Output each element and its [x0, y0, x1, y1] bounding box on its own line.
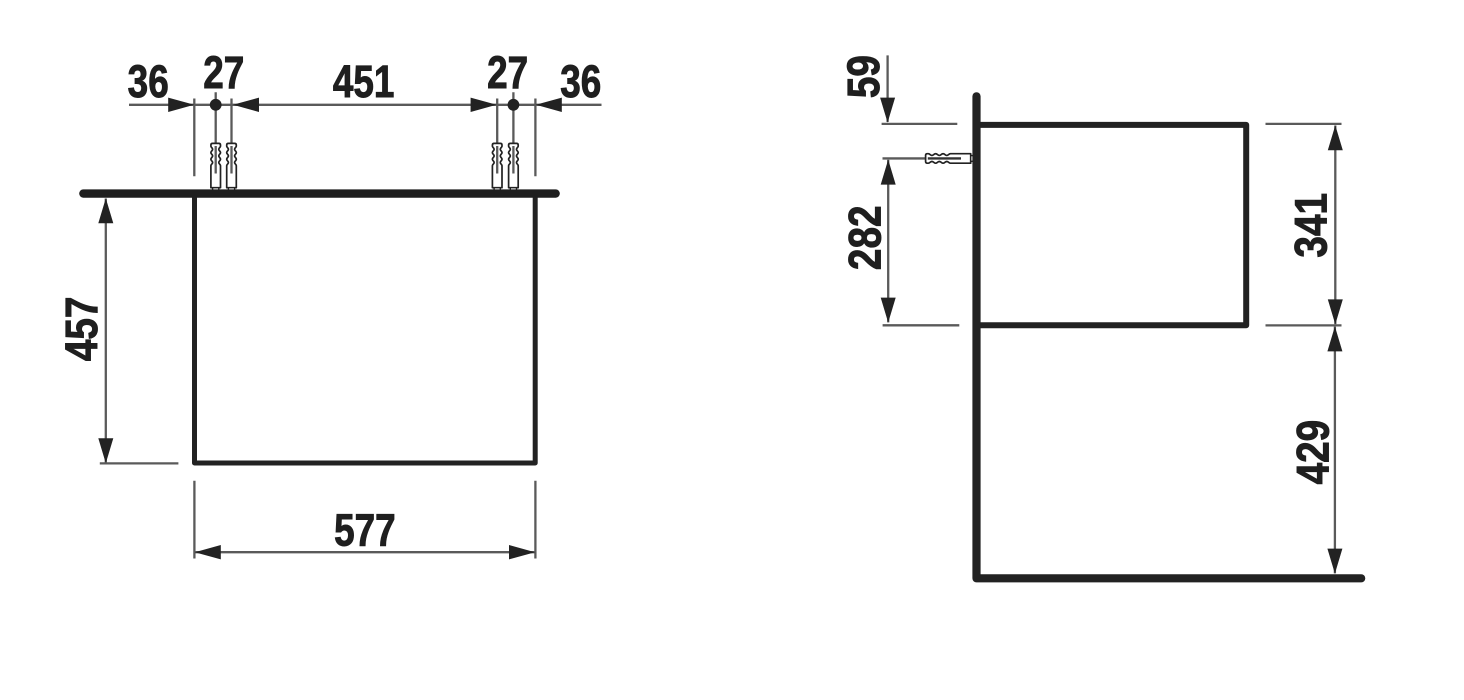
svg-text:59: 59: [838, 55, 888, 98]
extension line cabinet left edge: [193, 99, 195, 177]
wall anchor (side view): [926, 154, 971, 164]
axis line dowel 2: [230, 99, 232, 174]
wall and floor: [977, 96, 1362, 578]
arrowhead dim 36 right, pointing left: [536, 98, 562, 112]
arrowhead dim 282 bottom, pointing down: [881, 298, 896, 323]
svg-text:457: 457: [56, 297, 106, 362]
cabinet body outline: [195, 197, 536, 463]
axis line dowel 1: [215, 92, 217, 173]
arrowhead dim 457 bottom, pointing down: [98, 438, 113, 463]
svg-text:577: 577: [334, 505, 396, 555]
dot marker dim 27 right: [508, 99, 520, 111]
arrowhead dim 282 top, pointing up: [881, 160, 896, 185]
extension line cabinet right edge: [534, 99, 536, 177]
dim 59 vertical line: [886, 55, 888, 122]
axis line dowel 4: [512, 92, 514, 173]
arrowhead dim 457 top, pointing up: [98, 198, 113, 223]
svg-text:341: 341: [1286, 193, 1336, 258]
svg-text:282: 282: [840, 206, 890, 271]
arrowhead dim 577 left, pointing left: [195, 545, 221, 559]
svg-text:27: 27: [203, 48, 244, 98]
extension line 577 right: [534, 481, 536, 559]
dim 429 vertical line: [1334, 327, 1336, 574]
extension line box top right: [1266, 123, 1342, 125]
dim 577 line: [195, 551, 536, 553]
wall plug dowel d4: [509, 143, 519, 187]
svg-text:429: 429: [1288, 420, 1338, 485]
arrowhead dim 36 left, pointing right: [168, 98, 194, 112]
screw axis inside dowel 3: [496, 146, 498, 174]
arrowhead dim 451 left, pointing left: [233, 98, 259, 112]
screw inside wall anchor: [928, 157, 961, 159]
axis line dowel 3: [496, 99, 498, 174]
extension line 577 left: [193, 481, 195, 559]
wall plug dowel d1: [211, 143, 221, 187]
extension line cabinet top (side view): [882, 123, 958, 125]
wall plug dowel d3: [492, 143, 502, 187]
arrowhead dim 341 top, pointing up: [1328, 125, 1343, 150]
top dimension chain line (36/27/451/27/36): [129, 104, 602, 106]
dot marker dim 27 left: [210, 99, 222, 111]
dim 457 vertical line: [105, 199, 107, 464]
leader line to wall anchor: [883, 157, 926, 159]
svg-text:36: 36: [128, 57, 169, 107]
arrowhead dim 429 top, pointing up: [1327, 326, 1342, 351]
screw axis inside dowel 2: [230, 146, 232, 174]
cabinet box (side view): [980, 125, 1246, 325]
arrowhead dim 429 bottom, pointing down: [1327, 549, 1342, 574]
wall plug dowel d2: [227, 143, 237, 187]
arrowhead dim 577 right, pointing right: [509, 545, 535, 559]
dim 341 vertical line: [1334, 126, 1336, 325]
svg-text:451: 451: [333, 57, 395, 107]
screw axis inside dowel 1: [215, 146, 217, 174]
svg-text:27: 27: [487, 48, 528, 98]
arrowhead dim 341 bottom, pointing down: [1328, 299, 1343, 324]
extension line cabinet bottom left: [100, 462, 179, 464]
dim 282 vertical line: [887, 160, 889, 323]
extension line box bottom right: [1266, 324, 1342, 326]
svg-text:36: 36: [560, 56, 601, 106]
screw axis inside dowel 4: [512, 146, 514, 174]
arrowhead dim 451 right, pointing right: [471, 98, 497, 112]
arrowhead dim 59, pointing down: [880, 98, 895, 123]
extension line cabinet bottom (side view): [883, 324, 960, 326]
countertop (washbasin top plate): [79, 189, 560, 197]
